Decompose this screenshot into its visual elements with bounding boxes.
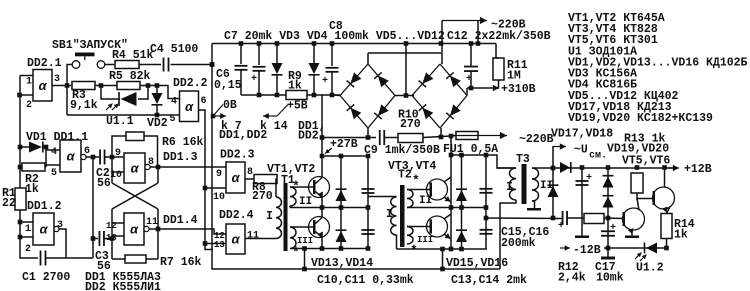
wire SB1 to R4	[105, 64, 115, 66]
svg-text:1k: 1k	[25, 183, 39, 196]
junction T2 rail top	[449, 153, 454, 158]
wire DD2.1 pin1	[20, 75, 33, 77]
svg-text:-12В: -12В	[573, 244, 601, 257]
arrow +12В	[668, 167, 679, 169]
svg-text:5: 5	[170, 114, 176, 125]
arrow ~U	[553, 146, 566, 148]
wire C7 bottom	[258, 71, 260, 95]
wire DD2.1 pin2	[20, 94, 33, 96]
wire DD1.1 pin4	[46, 149, 60, 151]
diode VD17	[560, 162, 570, 173]
junction R5 VD2	[146, 83, 151, 88]
collector slant VT2	[316, 218, 323, 224]
wire DD1.3 pin10	[112, 171, 124, 173]
wire T1-II to VT1 base	[290, 186, 313, 188]
wire VT5 emitter	[629, 229, 632, 236]
junction pin10 tap	[203, 186, 208, 191]
rail -12	[604, 247, 667, 249]
wire DD2.3 pin10	[205, 187, 226, 189]
junction VD4 bottom	[312, 93, 317, 98]
wire X vertical left upper	[111, 157, 113, 183]
bubble DD1.2	[54, 226, 59, 231]
rail 27V top	[322, 155, 368, 157]
wire X vertical right lower	[157, 209, 159, 259]
junction C10 bottom	[366, 246, 371, 251]
junction sync mid	[551, 216, 556, 221]
wire DD1.1 pin5	[46, 164, 60, 166]
wire R14 bottom	[666, 239, 668, 249]
svg-text:α: α	[130, 223, 139, 238]
capacitor C3	[98, 231, 100, 246]
svg-text:5: 5	[51, 168, 57, 179]
core T3	[522, 164, 527, 204]
svg-text:1: 1	[25, 224, 31, 235]
junction T3 out	[551, 166, 556, 171]
junction VT mid	[320, 205, 325, 210]
diode VD3	[272, 63, 283, 74]
junction C12 top	[469, 41, 474, 46]
wire SB1 row riser	[67, 65, 72, 116]
svg-text:*: *	[410, 243, 418, 258]
emitter arrow VT3	[445, 196, 451, 201]
collector slant VT1	[316, 178, 323, 184]
wire sync vertical	[552, 146, 554, 218]
junction VD15 top	[459, 153, 464, 158]
junction VD2 row	[155, 83, 160, 88]
svg-text:9: 9	[216, 169, 222, 180]
leader +5V	[277, 105, 288, 117]
transistor VT3	[427, 179, 448, 200]
wire T2 bus drop	[442, 249, 444, 269]
winding T3-II	[532, 168, 539, 201]
arrow 0V	[213, 115, 226, 117]
wire VD13 column	[340, 156, 342, 247]
svg-text:α: α	[131, 162, 140, 177]
arrow +27В	[325, 148, 332, 154]
junction C10 mid	[366, 205, 371, 210]
junction C3 right	[110, 236, 115, 241]
emitter arrow VT1	[318, 192, 323, 198]
wire C8 column	[331, 44, 333, 67]
svg-text:DD2 К555ЛИ1: DD2 К555ЛИ1	[85, 281, 161, 291]
arrow +5V	[263, 115, 277, 117]
node DD1.4 out	[156, 227, 161, 232]
wire T2-II to VT3 base	[407, 189, 430, 191]
junction C4 bus	[210, 62, 215, 67]
svg-text:2: 2	[26, 100, 32, 111]
photodiode U1.2 output	[644, 243, 646, 254]
wire node to R3	[67, 85, 72, 87]
junction T2 mid	[449, 205, 454, 210]
wire C8 bottom	[331, 72, 333, 95]
resistor R11	[493, 58, 504, 80]
svg-text:I: I	[266, 210, 273, 223]
resistor R1	[15, 188, 26, 210]
node DD1.3 out	[156, 165, 161, 170]
svg-text:270: 270	[252, 190, 273, 203]
wire C3 left	[93, 238, 98, 240]
transistor VT5	[623, 208, 645, 230]
junction C9 bridge	[366, 135, 371, 140]
junction bridge2 bottom	[439, 135, 444, 140]
wire DD1.2 pin1	[20, 221, 33, 223]
junction C7 bottom	[257, 93, 262, 98]
svg-text:VD13,VD14: VD13,VD14	[311, 257, 373, 270]
svg-text:C1 2700: C1 2700	[22, 271, 70, 284]
wire C2 to pin9	[105, 156, 125, 158]
svg-text:DD1.2: DD1.2	[27, 200, 62, 213]
svg-text:α: α	[40, 223, 49, 238]
LED arrow 1	[106, 104, 113, 111]
wire X diag 1	[112, 183, 158, 209]
svg-text:+: +	[610, 223, 616, 234]
svg-text:I: I	[506, 181, 513, 194]
capacitor C11	[362, 229, 375, 231]
junction zener mid	[606, 216, 611, 221]
node SB1/R3	[65, 83, 70, 88]
wire T1-II bottom	[289, 206, 291, 208]
svg-text:DD1.4: DD1.4	[163, 214, 198, 227]
and-gate DD2.1	[33, 70, 52, 102]
capacitor C12	[464, 66, 478, 68]
wire T2-I bottom	[396, 235, 398, 249]
capacitor C2	[99, 150, 101, 165]
diode VD18	[548, 184, 559, 186]
junction C3 left	[91, 236, 96, 241]
wire DD2.1 output	[52, 85, 67, 87]
wire C1 right	[46, 257, 94, 259]
base bar VT6	[653, 191, 656, 205]
base bar VT3	[430, 183, 433, 197]
wire VD1 right	[44, 146, 46, 148]
wire X diag 2	[112, 183, 158, 209]
wire C13 column	[485, 155, 487, 249]
svg-text:U1.1: U1.1	[106, 115, 134, 128]
junction bus T2	[440, 267, 445, 272]
junction R14 bottom	[664, 246, 669, 251]
junction C6 top	[239, 41, 244, 46]
wire R6 right	[144, 136, 158, 167]
resistor R4	[115, 61, 139, 69]
wire left bus upper	[19, 76, 21, 189]
wire R10 to FU1	[423, 136, 456, 138]
LED arrow 2	[112, 104, 119, 111]
svg-text:+12В: +12В	[684, 163, 712, 176]
junction bus T1	[302, 267, 307, 272]
wire R6 left	[112, 136, 126, 157]
svg-text:C4 5100: C4 5100	[150, 43, 198, 56]
wire pins45 vertical	[45, 147, 47, 167]
core T2	[400, 185, 405, 247]
capacitor C7	[253, 66, 266, 68]
wire R7 left	[112, 258, 125, 260]
wire VT3 emitter	[444, 197, 451, 202]
node C1 C2 feedback	[91, 155, 96, 160]
wire 27V row	[322, 137, 376, 139]
svg-text:4: 4	[51, 147, 57, 158]
capacitor C9	[379, 130, 381, 145]
junction 0V k7	[211, 114, 216, 119]
svg-text:VT5,VT6: VT5,VT6	[622, 155, 670, 168]
svg-text:U1.2: U1.2	[636, 262, 664, 275]
wire VD1 left	[20, 146, 29, 148]
capacitor C1	[40, 251, 42, 266]
junction AC rail	[439, 41, 444, 46]
junction C8 top	[330, 41, 335, 46]
svg-text:DD2.1: DD2.1	[27, 57, 62, 70]
ground bar VT5	[625, 236, 639, 239]
diode VD16	[456, 229, 467, 231]
base bar VT1	[313, 180, 316, 194]
wire T3-II top	[532, 167, 553, 169]
winding T2-II	[407, 190, 413, 208]
svg-text:DD2: DD2	[298, 130, 319, 143]
junction C10 top	[366, 154, 371, 159]
wire T1 bus drop	[304, 249, 306, 270]
wire R2 left	[20, 166, 22, 168]
wire VT6 emitter	[667, 207, 671, 214]
wire VD3 bottom	[276, 75, 278, 95]
wire feedback vertical	[92, 157, 94, 258]
wire DD1.4 to DD2.4	[158, 229, 226, 234]
junction bus DD1.2 pin1	[18, 220, 23, 225]
rail 0V 95 left	[241, 94, 286, 96]
svg-text:C12 2x22mk/350В: C12 2x22mk/350В	[447, 30, 551, 43]
junction VD2 loop	[155, 113, 160, 118]
svg-text:1k: 1k	[674, 229, 688, 242]
wire bridge mid vertical	[405, 44, 407, 96]
U1.2 arrow 2	[640, 255, 647, 262]
capacitor C6	[235, 65, 248, 67]
junction 0V C4	[210, 62, 215, 67]
wire bridge2 right up	[466, 88, 468, 96]
capacitor C10	[362, 188, 375, 190]
resistor R8	[254, 175, 277, 184]
svg-text:+: +	[322, 76, 328, 87]
wire parallel loop	[67, 114, 180, 116]
wire VD4 column	[313, 44, 315, 64]
wire DD1.2 pin2	[20, 236, 33, 238]
svg-text:C10,C11 0,33mk: C10,C11 0,33mk	[317, 274, 414, 287]
wire 0V bus	[212, 44, 500, 270]
wire C4 to bus	[171, 64, 213, 66]
junction T2 bottom	[449, 247, 454, 252]
wire bridge1 top	[367, 53, 369, 64]
resistor R7	[125, 255, 146, 263]
diode VD1	[29, 142, 42, 153]
wire T1-III to VT2 base	[290, 226, 313, 228]
transistor VT6	[653, 187, 675, 209]
wire VT column mid	[321, 198, 323, 218]
emitter arrow VT5	[628, 228, 634, 234]
capacitor C17	[601, 230, 615, 232]
nand-gate DD1.2	[33, 213, 54, 245]
svg-text:T2: T2	[398, 169, 412, 182]
diode VD4	[309, 63, 320, 74]
wire C3 right	[104, 238, 112, 240]
wire DD1.1 out	[86, 156, 99, 158]
svg-text:II: II	[299, 196, 312, 208]
winding T2-I	[391, 197, 397, 235]
bubble DD1.1	[81, 154, 86, 159]
wire R5 right	[140, 86, 180, 99]
resistor R5	[117, 82, 140, 90]
diode VD2	[152, 93, 163, 104]
junction bridges mid	[404, 93, 409, 98]
junction VD4 top	[312, 41, 317, 46]
wire DD1.2 out	[59, 229, 66, 258]
wire VT column upper	[321, 95, 323, 178]
junction bus drop T2	[440, 247, 445, 252]
diode VD14	[336, 229, 347, 231]
wire R11 bottom	[496, 80, 499, 88]
wire DD1.4 pin12	[112, 222, 124, 224]
junction VT bottom	[320, 246, 325, 251]
junction C13 218	[484, 216, 489, 221]
svg-text:~220В: ~220В	[519, 133, 554, 146]
svg-text:VD19,VD20 КС182+КС139: VD19,VD20 КС182+КС139	[568, 112, 713, 125]
svg-text:9,1k: 9,1k	[70, 99, 98, 112]
wire VT5 collector	[637, 199, 639, 211]
LED U1.1	[118, 92, 120, 106]
svg-text:22: 22	[2, 197, 16, 210]
diode VD13	[336, 188, 347, 190]
capacitor C4	[163, 58, 165, 72]
junction 27V left	[320, 135, 325, 140]
wire T3-I bottom	[500, 200, 516, 269]
fuse FU1 bar	[451, 135, 478, 137]
arrow ~220В bottom	[478, 135, 507, 137]
rail output top	[553, 167, 676, 169]
junction pin2 bus	[17, 93, 22, 98]
capacitor C8	[326, 67, 339, 69]
junction VD3 top	[275, 41, 280, 46]
svg-text:+27В: +27В	[330, 138, 358, 151]
wire C12 bottom	[470, 71, 472, 88]
wire DD1.3 out	[150, 166, 226, 168]
wire T2-I top	[368, 196, 397, 198]
junction C8 bottom	[330, 93, 335, 98]
svg-text:C9 1mk/350В: C9 1mk/350В	[364, 144, 440, 157]
wire T3-I top	[497, 167, 516, 169]
wire R2 right	[45, 166, 46, 168]
wire C12 column	[470, 44, 472, 67]
wire VT4 emitter	[444, 234, 451, 239]
svg-text:10: 10	[213, 192, 225, 203]
svg-text:VD17,VD18: VD17,VD18	[551, 128, 613, 141]
junction VD19 top	[606, 165, 611, 170]
wire AC top vertical	[441, 21, 443, 65]
svg-text:4: 4	[171, 97, 177, 108]
arrow ~220В top	[442, 20, 487, 22]
arrow -12В	[560, 247, 570, 249]
svg-text:α: α	[185, 100, 194, 115]
wire VD4 bottom	[313, 75, 315, 95]
wire R13 bottom	[637, 193, 653, 199]
svg-text:9: 9	[115, 148, 121, 159]
rail T2 top	[451, 155, 516, 168]
resistor R2	[22, 163, 45, 171]
wire C column 580	[581, 168, 583, 237]
svg-text:0В: 0В	[223, 99, 237, 112]
winding T3-I	[510, 168, 516, 200]
and-gate DD2.4	[226, 224, 245, 254]
nand-gate DD1.1	[60, 140, 81, 172]
wire VT column lower	[321, 238, 323, 249]
wire X vertical right upper	[157, 167, 159, 183]
junction C13 mid	[484, 205, 489, 210]
svg-text:13: 13	[214, 240, 225, 250]
wire left bus lower	[20, 210, 38, 258]
junction bus drop T1	[302, 246, 307, 251]
wire VT6 collector	[664, 168, 666, 188]
emitter arrow VT4	[445, 233, 451, 238]
emitter slant VT1	[316, 192, 323, 198]
wire VT3 collector	[444, 177, 451, 182]
arrow +310В	[492, 87, 499, 89]
svg-text:0,15: 0,15	[214, 79, 242, 92]
svg-text:+310В: +310В	[501, 83, 536, 96]
wire bridge tops	[368, 52, 441, 54]
U1.2 arrow 1	[635, 253, 642, 260]
transistor VT1	[309, 177, 330, 198]
junction R3 LED	[99, 83, 104, 88]
resistor R14	[661, 214, 672, 239]
junction C17 bottom	[606, 246, 611, 251]
svg-text:*: *	[412, 173, 420, 188]
wire T3-II bottom	[532, 201, 535, 208]
ground bar C18	[575, 236, 589, 239]
and-gate DD2.2	[180, 91, 199, 122]
bubble DD1.4	[144, 226, 149, 231]
svg-text:270: 270	[400, 118, 421, 131]
wire R11 top	[496, 44, 499, 59]
wire cap to R12	[567, 217, 584, 219]
svg-text:α: α	[232, 171, 241, 186]
capacitor C13	[480, 188, 493, 190]
rail top 44	[212, 43, 496, 45]
base bar VT4	[430, 220, 433, 234]
svg-text:DD2.4: DD2.4	[219, 209, 254, 222]
wire DD1.4 out	[149, 228, 158, 230]
junction 27V node	[320, 154, 325, 159]
svg-text:11: 11	[247, 231, 259, 242]
svg-text:+: +	[558, 221, 564, 232]
emitter arrow VT6	[662, 207, 668, 213]
junction rail bridge mid	[404, 41, 409, 46]
winding T1-III	[290, 227, 296, 249]
transistor VT2	[309, 217, 330, 238]
rail bottom T1	[291, 248, 368, 250]
wire VD3 column	[276, 44, 278, 64]
wire R12 to VT5	[604, 217, 623, 220]
wire DD2.3 out	[245, 178, 254, 180]
svg-text:10mk: 10mk	[596, 272, 624, 285]
svg-text:2,4k: 2,4k	[558, 272, 586, 285]
wire C17 ground stub	[607, 248, 609, 257]
junction bottom VD13	[339, 246, 344, 251]
wire VD2 top	[156, 86, 158, 94]
svg-text:+: +	[586, 173, 592, 184]
svg-text:2: 2	[25, 244, 31, 255]
svg-text:DD2.2: DD2.2	[173, 77, 208, 90]
core T1	[284, 183, 288, 251]
winding T1-I	[276, 197, 282, 239]
wire zener column	[607, 168, 609, 249]
winding T2-III	[407, 227, 413, 245]
capacitor C14	[480, 229, 493, 231]
svg-text:56: 56	[97, 177, 111, 190]
